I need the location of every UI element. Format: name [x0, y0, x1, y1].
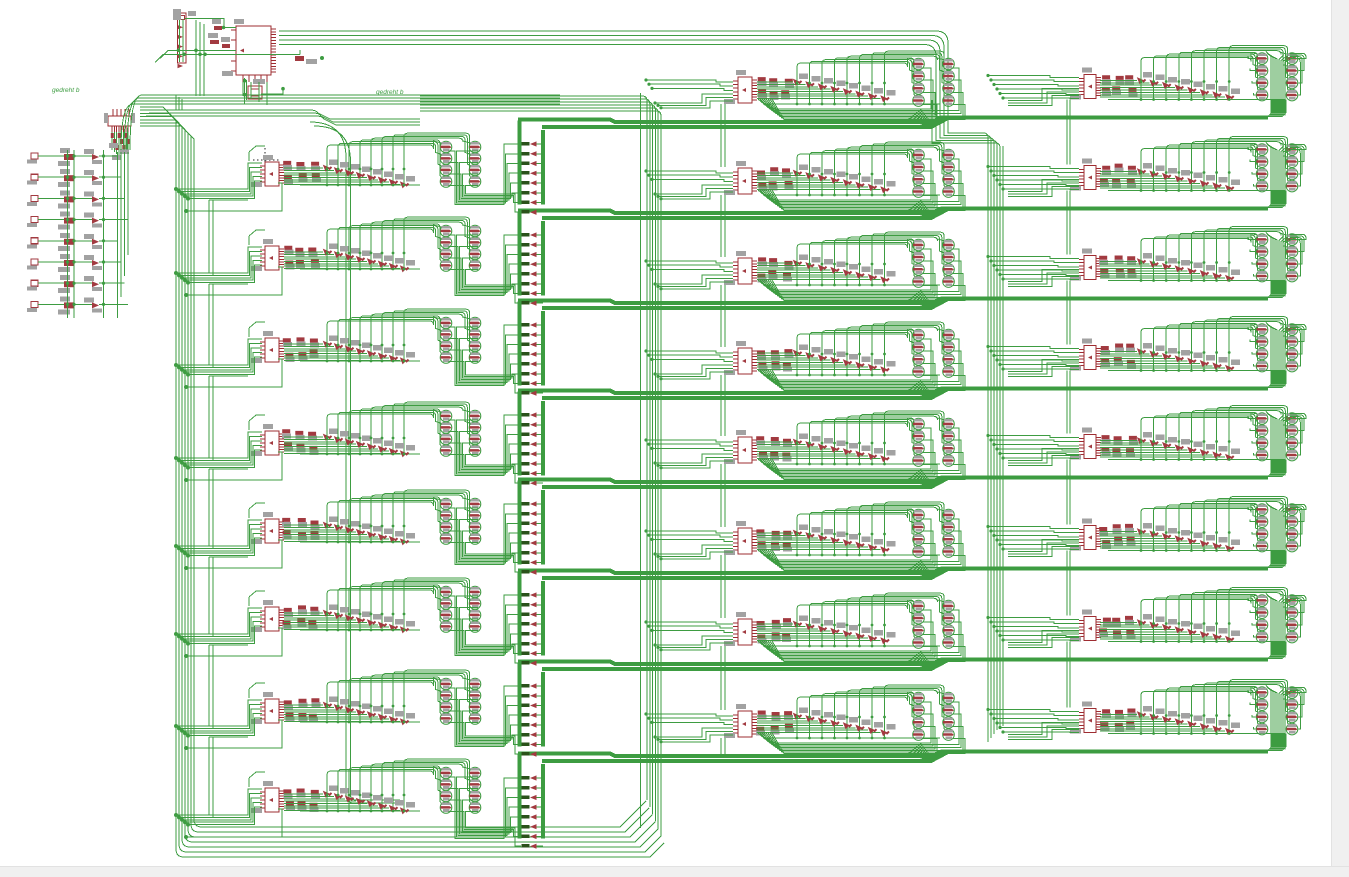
- wire flag wrap right row 6: [1290, 505, 1306, 547]
- resistor network RN5 left row 5: [282, 518, 319, 541]
- transistor array right row 1: [1256, 53, 1298, 101]
- switch S8: [27, 296, 128, 314]
- diode array right row 5: [1100, 432, 1285, 461]
- wire daisy chain right row 5: [1067, 460, 1070, 525]
- wire central riser bundle right row 3: [1266, 233, 1295, 297]
- resistor network right row 5: [1101, 435, 1138, 457]
- wire below-entry stubs right row 1: [1008, 89, 1079, 106]
- wire thick row bus A row 2: [518, 209, 1268, 214]
- wire input stubs middle row 2: [644, 169, 733, 200]
- LED array LED57-LED64 row 8: [522, 775, 544, 848]
- wire arc fan middle row 6: [797, 502, 946, 547]
- IC U17 (right column row 1): [1070, 68, 1101, 100]
- transistor array middle row 7: [913, 600, 955, 648]
- wire daisy chain right row 2: [1067, 191, 1070, 255]
- wire output bundle middle row 5: [758, 428, 965, 480]
- transistor array right row 3: [1256, 234, 1298, 282]
- transistor array middle row 1: [913, 58, 955, 106]
- wire flag wrap right row 8: [1290, 688, 1306, 730]
- wire input stubs middle row 3: [644, 259, 733, 290]
- capacitor C1: [212, 19, 222, 30]
- wire below-entry stubs right row 5: [1008, 449, 1079, 466]
- transistor array Q33-Q40 left row 5: [440, 498, 481, 544]
- wire arc fan right row 6: [1141, 497, 1289, 542]
- wire bus fan-out to transistor bank row 4: [1256, 371, 1286, 388]
- transistor array middle row 3: [913, 239, 955, 287]
- IC U16 (middle column row 8): [724, 704, 757, 738]
- wire LED cathode bus row 7: [541, 672, 545, 747]
- wire transistor-to-LED row 4: [449, 415, 522, 483]
- wire daisy chain left row 4: [209, 469, 248, 548]
- wire input stubs left row 3: [174, 322, 282, 389]
- wire input stubs left row 6: [174, 591, 282, 658]
- wire input stubs left row 7: [174, 683, 282, 750]
- wire inner loop: [146, 110, 420, 125]
- wire col1 hooks right row 6: [1248, 508, 1256, 547]
- resistor network RN10 middle row 2: [757, 167, 794, 191]
- wire thick row bus A row 3: [518, 299, 1268, 304]
- IC U9 (middle column row 1): [724, 70, 757, 104]
- wire LED cathode bus row 4: [541, 401, 545, 476]
- diode array right row 3: [1100, 253, 1285, 282]
- wire bundle merge middle row 6: [906, 560, 933, 576]
- diode array right row 7: [1100, 614, 1285, 643]
- IC U18 (right column row 2): [1070, 159, 1101, 191]
- wire arc fan middle row 8: [797, 685, 946, 731]
- diode array middle row 7: [757, 616, 940, 648]
- wire below-entry stubs right row 2: [1008, 180, 1079, 197]
- resistor network RN16 middle row 8: [756, 711, 794, 736]
- wire LED anode bus row 6: [518, 572, 522, 656]
- wire input stubs right row 5: [986, 434, 1079, 460]
- wire input stubs left row 4: [174, 415, 282, 482]
- diode array D9-D16 left row 2: [284, 244, 420, 273]
- IC U1 (left column row 1): [251, 155, 284, 187]
- wire LED cathode bus row 2: [541, 221, 545, 296]
- wire daisy chain middle row 3: [721, 285, 725, 347]
- transistor array Q1-Q8 left row 1: [440, 141, 481, 187]
- wire output bundle middle row 1: [758, 68, 965, 120]
- wire bundle merge middle row 1: [906, 109, 933, 125]
- svg-text:gedreht b: gedreht b: [376, 89, 404, 96]
- wire input stubs middle row 8: [644, 712, 733, 743]
- svg-text:gedreht b: gedreht b: [52, 87, 80, 94]
- wire central riser bundle right row 7: [1266, 594, 1295, 658]
- wire LED cathode bus row 3: [541, 311, 545, 386]
- wire LED cathode bus row 1: [541, 130, 545, 205]
- IC U7 (left column row 7): [251, 692, 284, 724]
- IC U14 (middle column row 6): [724, 521, 757, 555]
- wire bus fan-out to transistor bank row 6: [1256, 551, 1286, 568]
- wire arc fan right row 1: [1141, 46, 1289, 92]
- wire daisy chain left row 7: [209, 737, 248, 817]
- wire arc fan left row 3: [327, 309, 471, 353]
- resistor network RN6 left row 6: [283, 605, 320, 629]
- wire bus fan-out to transistor bank row 5: [1256, 460, 1286, 477]
- wire bundle merge middle row 3: [906, 290, 933, 306]
- wire bundle merge middle row 7: [906, 651, 933, 667]
- diode array D1-D8 left row 1: [284, 160, 420, 189]
- wire col1 hooks right row 7: [1248, 599, 1256, 638]
- LED array LED41-LED48 row 6: [522, 592, 544, 665]
- diode array D17-D24 left row 3: [284, 336, 420, 365]
- wire right vertical feed bundle: [932, 100, 1003, 742]
- wire thick row bus A row 5: [518, 478, 1268, 483]
- wire below-entry stubs right row 6: [1008, 540, 1079, 557]
- resistor network RN9 middle row 1: [758, 77, 794, 100]
- wire transistor-to-LED row 6: [449, 595, 522, 663]
- wire input stubs right row 6: [986, 525, 1079, 551]
- wire thick row bus A row 7: [518, 660, 1268, 665]
- wire flag wrap right row 5: [1290, 414, 1306, 456]
- wire arc fan right row 4: [1141, 317, 1289, 363]
- resistor network right row 8: [1100, 709, 1136, 732]
- wire LED cathode bus row 5: [541, 490, 545, 565]
- IC U13 (middle column row 5): [724, 430, 757, 464]
- IC U10 (middle column row 2): [724, 161, 757, 195]
- transistor array Q57-Q64 left row 8: [440, 767, 481, 813]
- wire input stubs middle row 7: [644, 620, 733, 651]
- resistor network RN15 middle row 7: [757, 618, 792, 643]
- wire central riser bundle right row 5: [1266, 412, 1295, 476]
- switch S4: [27, 212, 128, 230]
- wire left column clock/data pair: [310, 122, 400, 803]
- transistor array right row 4: [1256, 324, 1298, 372]
- switch S5: [27, 233, 118, 251]
- IC U8 (left column row 8): [251, 781, 284, 813]
- transistor array Q49-Q56 left row 7: [440, 678, 481, 724]
- diode array middle row 2: [757, 165, 940, 197]
- wire LED anode bus row 8: [518, 755, 522, 839]
- LED array LED17-LED24 row 3: [522, 322, 544, 395]
- switch S7: [27, 275, 125, 293]
- wire flag wrap right row 2: [1290, 145, 1306, 187]
- wire arc fan middle row 3: [797, 232, 946, 278]
- transistor array middle row 8: [913, 692, 955, 740]
- wire input stubs middle row 6: [644, 529, 733, 560]
- wire daisy chain middle row 4: [721, 375, 725, 436]
- wire arc fan middle row 4: [797, 322, 946, 368]
- cursor crosshair: [253, 148, 279, 172]
- wire arc fan middle row 1: [797, 51, 946, 97]
- wire input stubs middle row 4: [644, 349, 733, 380]
- LED array LED9-LED16 row 2: [522, 232, 544, 305]
- wire LED anode bus row 7: [518, 663, 522, 747]
- resistor network RN14 middle row 6: [756, 529, 792, 551]
- wire arc fan right row 3: [1141, 227, 1289, 273]
- wire daisy chain middle row 1: [721, 104, 725, 167]
- resistor network RN3 left row 3: [283, 337, 319, 361]
- IC U23 (right column row 7): [1070, 610, 1101, 642]
- wire thick row bus A row 1: [518, 118, 1268, 123]
- wire thick row bus B row 1: [542, 119, 947, 128]
- label gesteckt-b middle: [376, 89, 404, 96]
- wire flag wrap right row 3: [1290, 235, 1306, 277]
- wire arc fan right row 5: [1141, 406, 1289, 452]
- wire daisy chain middle row 5: [721, 464, 725, 527]
- wire output bundle middle row 7: [758, 610, 965, 662]
- resistor network RN1 left row 1: [283, 161, 321, 184]
- transistor array right row 6: [1256, 504, 1298, 552]
- resistor network right row 1: [1102, 75, 1138, 97]
- wire below-entry stubs right row 7: [1008, 631, 1079, 648]
- diode array D57-D64 left row 8: [284, 786, 420, 815]
- wire daisy chain left row 2: [209, 284, 248, 367]
- wire daisy chain left row 3: [209, 376, 248, 460]
- wire daisy chain right row 3: [1067, 281, 1070, 345]
- resistor R2: [295, 56, 317, 64]
- wire col1 hooks right row 1: [1248, 57, 1256, 96]
- IC U6 (left column row 6): [251, 600, 284, 632]
- scrollbar horizontal track: [0, 866, 1349, 877]
- wire flag wrap right row 7: [1290, 596, 1306, 638]
- wire switch array verticals: [68, 150, 129, 318]
- diode array middle row 1: [757, 74, 940, 106]
- wire arc fan right row 8: [1141, 680, 1289, 726]
- transistor array right row 5: [1256, 413, 1298, 461]
- wire daisy chain left row 6: [209, 645, 248, 728]
- resistor network RN12 middle row 4: [757, 349, 793, 371]
- wire bundle merge middle row 8: [906, 743, 933, 759]
- switch S2: [27, 169, 121, 187]
- switch array junctions: [66, 154, 105, 306]
- wire output bundle middle row 4: [758, 339, 965, 391]
- wire input stubs right row 1: [986, 74, 1079, 100]
- wire daisy chain right row 6: [1067, 551, 1070, 616]
- wire daisy chain middle row 7: [721, 646, 725, 710]
- wire daisy chain right row 4: [1067, 371, 1070, 434]
- wire input stubs right row 7: [986, 616, 1079, 642]
- wire arc fan left row 1: [327, 133, 471, 177]
- wire arc fan left row 5: [327, 490, 471, 534]
- wire transistor-to-LED row 7: [449, 686, 522, 754]
- LED array LED49-LED56 row 7: [522, 683, 544, 756]
- wire arc fan left row 8: [327, 759, 471, 803]
- wire daisy chain left row 5: [209, 557, 248, 636]
- wire thick row bus B row 5: [542, 479, 947, 488]
- diode array right row 4: [1100, 343, 1285, 372]
- wire arc fan middle row 7: [797, 593, 946, 639]
- wire thick row bus A row 6: [518, 569, 1268, 574]
- wire output bundle middle row 6: [758, 519, 965, 571]
- wire central riser bundle right row 1: [1266, 52, 1295, 116]
- diode array middle row 8: [757, 708, 940, 740]
- LED array LED33-LED40 row 5: [522, 501, 544, 574]
- wire central riser bundle right row 6: [1266, 503, 1295, 567]
- wire bus fan-out to transistor bank row 1: [1256, 100, 1286, 117]
- wire col1 hooks right row 2: [1248, 148, 1256, 187]
- wire daisy chain left row 1: [209, 200, 248, 275]
- wire bus fan-out to transistor bank row 3: [1256, 281, 1286, 298]
- wire arc fan left row 2: [327, 217, 471, 261]
- scrollbar vertical track: [1331, 0, 1349, 877]
- resistor network right row 3: [1099, 256, 1136, 278]
- wire big IC bottom pins: [243, 75, 267, 82]
- wire bundle merge middle row 2: [906, 200, 933, 216]
- transistor array right row 8: [1256, 687, 1298, 735]
- wire arc fan left row 4: [327, 402, 471, 446]
- wire output bundle middle row 3: [758, 249, 965, 301]
- wire transistor-to-LED row 3: [449, 325, 522, 393]
- wire transistor-to-LED row 8: [449, 777, 522, 846]
- wire thick row bus A row 4: [518, 389, 1268, 394]
- wire LED cathode bus row 6: [541, 581, 545, 656]
- wire transistor-to-LED row 1: [449, 144, 522, 212]
- resistor network RN2 left row 2: [284, 246, 320, 270]
- wire col1 hooks right row 4: [1248, 328, 1256, 367]
- wire flag wrap right row 1: [1290, 54, 1306, 96]
- label gesteckt-b left: [52, 87, 80, 94]
- wire below-entry stubs right row 8: [1008, 723, 1079, 740]
- wire LED anode bus row 5: [518, 481, 522, 565]
- diode array middle row 4: [757, 345, 940, 377]
- wire input stubs left row 5: [174, 503, 282, 570]
- transistor array right row 7: [1256, 595, 1298, 643]
- wire bundle merge middle row 5: [906, 469, 933, 485]
- diode array D33-D40 left row 5: [284, 517, 420, 546]
- wire input stubs right row 3: [986, 255, 1079, 281]
- wire LED anode bus row 3: [518, 302, 522, 386]
- IC U19 (right column row 3): [1070, 249, 1101, 281]
- wire bus fan-out to transistor bank row 7: [1256, 642, 1286, 659]
- wire flag wrap right row 4: [1290, 325, 1306, 367]
- wire arc fan left row 6: [327, 578, 471, 622]
- wire col1 hooks right row 3: [1248, 238, 1256, 277]
- wire col1 hooks right row 8: [1248, 691, 1256, 730]
- transistor array Q25-Q32 left row 4: [440, 410, 481, 456]
- transistor array Q17-Q24 left row 3: [440, 317, 481, 363]
- transistor array middle row 4: [913, 329, 955, 377]
- diode array right row 2: [1100, 163, 1285, 192]
- wire thick row bus B row 8: [542, 753, 947, 762]
- transistor array middle row 5: [913, 418, 955, 466]
- wire bus fan-out to transistor bank row 2: [1256, 191, 1286, 208]
- wire bundle merge middle row 4: [906, 380, 933, 396]
- resistor network RN4 left row 4: [282, 429, 318, 455]
- diode array D49-D56 left row 7: [284, 697, 420, 726]
- wire input stubs right row 8: [986, 708, 1079, 734]
- resistor network RN13 middle row 5: [756, 436, 792, 461]
- wire input stubs middle row 5: [644, 438, 733, 469]
- transistor array middle row 2: [913, 149, 955, 197]
- wire below-entry stubs right row 3: [1008, 270, 1079, 287]
- IC U15 (middle column row 7): [724, 612, 757, 646]
- wire arc fan middle row 2: [797, 142, 946, 188]
- wire daisy chain middle row 2: [721, 195, 725, 257]
- switch S1: [27, 148, 118, 166]
- wire input stubs left row 2: [174, 230, 282, 297]
- wire col1 hooks right row 5: [1248, 417, 1256, 456]
- resistor network right row 4: [1101, 344, 1136, 369]
- resistor network RN11 middle row 3: [757, 257, 793, 282]
- wire bus fan-out to transistor bank row 8: [1256, 734, 1286, 751]
- wire input stubs left row 1: [174, 146, 282, 213]
- wire big IC to right loop: [279, 31, 948, 112]
- node big-IC right: [320, 56, 324, 60]
- pin header J1: [173, 9, 196, 68]
- IC U12 (middle column row 4): [724, 341, 757, 375]
- wire mux fan-out: [112, 132, 128, 156]
- wire thick row bus B row 6: [542, 570, 947, 579]
- resistor network right row 2: [1100, 164, 1137, 188]
- IC U11 (middle column row 3): [724, 251, 757, 285]
- IC U3 (left column row 3): [251, 331, 284, 363]
- transistor array middle row 6: [913, 509, 955, 557]
- mux pin contacts: [109, 133, 130, 160]
- transistor array Q9-Q16 left row 2: [440, 225, 481, 271]
- wire below-entry stubs right row 4: [1008, 360, 1079, 377]
- wire middle vertical feed bundle: [420, 93, 661, 836]
- wire thick row bus B row 3: [542, 300, 947, 309]
- diode array middle row 6: [757, 525, 940, 557]
- wire left vertical feed bundle + bottom return bus: [140, 107, 664, 857]
- switch S3: [27, 190, 125, 208]
- crystal Y1: [243, 78, 285, 104]
- IC U21 (right column row 5): [1070, 428, 1101, 460]
- wire thick row bus B row 7: [542, 661, 947, 670]
- diode array right row 8: [1100, 706, 1285, 735]
- wire LED cathode bus row 8: [541, 764, 545, 839]
- diode array D41-D48 left row 6: [284, 605, 420, 634]
- diode array right row 1: [1100, 72, 1285, 101]
- IC U5 (left column row 5): [251, 512, 284, 544]
- diode array middle row 3: [757, 255, 940, 287]
- wire LED anode bus row 1: [518, 121, 522, 205]
- resistor network right row 6: [1099, 524, 1135, 549]
- wire transistor-to-LED row 5: [449, 504, 522, 572]
- wire arc fan left row 7: [327, 670, 471, 714]
- wire header feed lines: [155, 19, 300, 96]
- wire transistor-to-LED row 2: [449, 235, 522, 303]
- wire daisy chain right row 7: [1067, 642, 1070, 708]
- wire arc fan middle row 5: [797, 411, 946, 457]
- wire output bundle middle row 8: [758, 702, 965, 754]
- wire arc fan right row 2: [1141, 137, 1289, 183]
- wire thick row bus B row 4: [542, 390, 947, 399]
- wire thick row bus A row 8: [518, 752, 1268, 757]
- LED array LED25-LED32 row 4: [522, 412, 544, 485]
- resistor R1 cluster: [208, 33, 230, 48]
- transistor array Q41-Q48 left row 6: [440, 586, 481, 632]
- wire top loop bus: [121, 95, 560, 150]
- IC U4 (left column row 4): [251, 424, 284, 456]
- wire output bundle middle row 2: [758, 159, 965, 211]
- wire input stubs middle row 1: [644, 78, 733, 109]
- wire arc fan right row 7: [1141, 588, 1289, 634]
- wire big IC bottom to loop: [243, 82, 267, 105]
- IC U20 (right column row 4): [1070, 339, 1101, 371]
- op-amp/controller IC U0: [222, 19, 276, 76]
- switch S6: [27, 254, 121, 272]
- wire daisy chain middle row 6: [721, 555, 725, 618]
- wire LED anode bus row 2: [518, 212, 522, 296]
- wire daisy chain middle row 8: [721, 738, 725, 758]
- wire input stubs right row 2: [986, 165, 1079, 191]
- resistor network RN8 left row 8: [283, 789, 319, 812]
- multiplexer IC U25: [104, 109, 135, 132]
- wire loop-to-left-bundle: [176, 95, 182, 110]
- diode array D25-D32 left row 4: [284, 429, 420, 458]
- resistor network right row 7: [1099, 616, 1135, 640]
- wire central riser bundle right row 4: [1266, 323, 1295, 387]
- IC U2 (left column row 2): [251, 239, 284, 271]
- LED array LED1-LED8 row 1: [522, 141, 544, 215]
- wire input stubs right row 4: [986, 345, 1079, 371]
- wire thick row bus B row 2: [542, 210, 947, 219]
- IC U24 (right column row 8): [1070, 702, 1101, 734]
- resistor network RN7 left row 7: [284, 698, 321, 723]
- diode array right row 6: [1100, 523, 1285, 552]
